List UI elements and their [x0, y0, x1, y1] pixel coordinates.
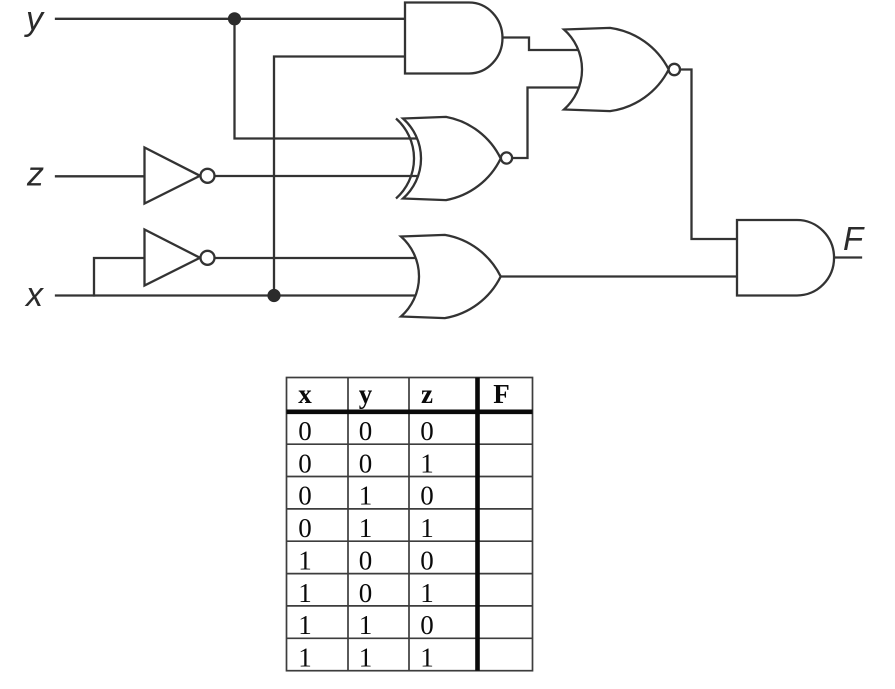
svg-text:1: 1	[420, 643, 434, 673]
svg-text:1: 1	[298, 578, 312, 608]
svg-text:0: 0	[420, 416, 434, 446]
svg-text:0: 0	[359, 545, 373, 575]
svg-text:F: F	[843, 220, 865, 257]
svg-text:y: y	[24, 0, 45, 38]
svg-text:0: 0	[298, 513, 312, 543]
svg-text:0: 0	[420, 610, 434, 640]
svg-text:F: F	[493, 379, 510, 409]
svg-text:1: 1	[359, 481, 373, 511]
svg-text:0: 0	[420, 545, 434, 575]
svg-text:0: 0	[359, 578, 373, 608]
svg-text:1: 1	[359, 513, 373, 543]
svg-text:0: 0	[298, 448, 312, 478]
svg-text:0: 0	[359, 416, 373, 446]
svg-text:z: z	[26, 156, 44, 194]
svg-text:1: 1	[359, 610, 373, 640]
svg-text:0: 0	[359, 448, 373, 478]
svg-text:y: y	[359, 379, 373, 409]
svg-text:1: 1	[420, 448, 434, 478]
svg-text:1: 1	[420, 513, 434, 543]
svg-text:1: 1	[298, 643, 312, 673]
svg-text:0: 0	[298, 416, 312, 446]
svg-text:0: 0	[420, 481, 434, 511]
svg-text:1: 1	[359, 643, 373, 673]
svg-text:0: 0	[298, 481, 312, 511]
svg-text:x: x	[24, 276, 44, 314]
svg-text:1: 1	[298, 545, 312, 575]
svg-text:1: 1	[298, 610, 312, 640]
svg-text:z: z	[421, 379, 433, 409]
svg-text:x: x	[298, 379, 312, 409]
svg-text:1: 1	[420, 578, 434, 608]
